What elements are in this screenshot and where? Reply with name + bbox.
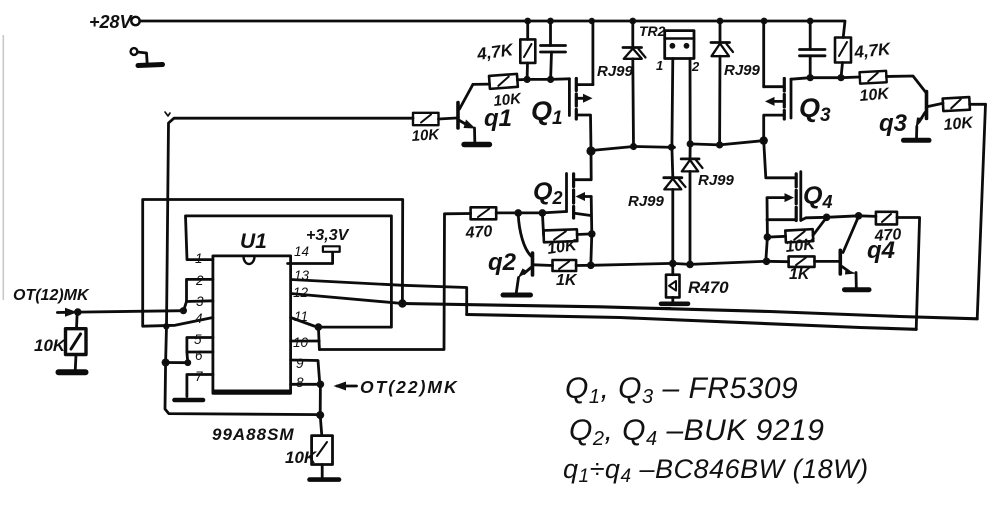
junction bus left end [587,262,595,270]
mosfet Q1 [569,21,593,151]
junction q1wire-pin56wire [162,359,170,367]
wire OT12 to pin3 [78,311,184,312]
wire q1 collector to 10K [473,83,490,86]
transistor q1 [458,84,476,141]
wire pin5-pin6 join [187,338,213,353]
wire Q2 gate row [496,212,566,213]
resistor 470 left [471,207,497,219]
svg-text:5: 5 [194,332,202,347]
junction rail-Q1drain [589,18,595,24]
ground R470 [661,304,688,309]
svg-text:1: 1 [195,251,203,266]
svg-text:11: 11 [294,309,308,324]
resistor 1K q2 [553,260,577,271]
wire bus2 pin13 to 470R [467,315,917,330]
wire Q3 gate row [791,77,860,79]
wire 10K left leg [767,235,785,239]
svg-text:10K: 10K [34,336,67,355]
IC U1 body [213,256,291,393]
svg-text:10K: 10K [943,114,975,134]
svg-text:8: 8 [296,375,304,390]
junction bus right end [763,258,771,266]
svg-text:+3,3V: +3,3V [306,227,350,244]
svg-text:Q1, Q3 – FR5309: Q1, Q3 – FR5309 [565,372,798,408]
ground 10K bottom [310,477,340,482]
junction 4.7K bottom [524,76,531,83]
wire 10K left leg [542,213,543,236]
wire 10K to q1 base [439,118,457,119]
scan edge artifact [3,35,5,300]
svg-text:4,7K: 4,7K [852,39,892,62]
wire pin1 loopB to pin11 [186,216,392,327]
wire 1K to q4 base [815,260,839,263]
diode RJ99 D1 [623,21,646,147]
svg-text:OT(22)MK: OT(22)MK [360,377,459,397]
junction 4.7KR bottom [837,74,844,81]
resistor 10K q3 collector [943,97,970,111]
wire bus1 pin12 to q3 collector [402,304,977,319]
wire pin8 down to 10K [320,384,322,435]
resistor 10K q1 base [413,113,439,125]
junction q4 collector / 470R [855,212,863,220]
junction TR2 pin2 [687,140,694,147]
wire 1K left leg [766,260,789,263]
svg-text:2: 2 [195,273,204,288]
junction q2 collector [514,209,522,217]
svg-text:6: 6 [195,348,203,363]
svg-text:2: 2 [691,59,700,74]
ground input pulldown [59,369,86,375]
svg-text:10K: 10K [493,90,523,110]
wire Q4 source to bus [766,237,768,261]
junction rail-Q3drain [761,18,768,25]
resistor R470 shunt [666,263,680,302]
ground q3 emitter [904,138,930,143]
wire Q2 source to bus [591,234,592,265]
junction rail-4.7kL [524,18,531,25]
diode RJ99 D2 [711,21,733,145]
wire q1 base long (from 10K down left side around U1 to pin8 node) [165,118,413,414]
wire pin10-11 vertical [318,327,319,349]
junction D2 anode [716,141,723,148]
wire 10K right leg [577,232,592,235]
junction 10K q2 top [539,209,547,217]
wire 470 to U1 pins10/11 [319,214,470,350]
junction wrap wire [316,411,324,419]
svg-text:RJ99: RJ99 [597,63,634,80]
ground q4 emitter [845,287,870,292]
svg-text:470: 470 [464,223,493,242]
svg-text:13: 13 [294,268,310,283]
wire Q4 gate row [801,216,876,221]
svg-text:U1: U1 [240,230,267,253]
notes [563,372,869,487]
transistor q3 [916,92,944,139]
node Q3 source [760,136,768,144]
wire 10K to q3 base [886,76,926,93]
mosfet Q2 [567,151,592,234]
wire pin8 stub [291,383,321,386]
wire source bus (R470 row) [591,261,768,265]
junction capR bottom [807,74,814,81]
arrow OT(12) input [57,308,77,317]
wire pin4 loopA [143,200,403,327]
resistor 10K q3 base [860,71,887,84]
svg-text:10K: 10K [785,236,817,256]
tick mark [165,112,170,116]
pin numbers right [293,244,310,390]
node +28V terminal circle [131,17,139,25]
wire pin13 run [291,280,467,315]
svg-text:q1÷q4 –BC846BW (18W): q1÷q4 –BC846BW (18W) [563,454,869,487]
junction OT12 node [74,308,82,316]
svg-text:RJ99: RJ99 [724,62,761,79]
junction pin8 [317,381,325,389]
wire pin6 down to q1wire [166,352,188,363]
junction rail-capL [547,18,554,25]
junction 10K q4 top [823,214,831,222]
wire q2 base to 1K [534,263,553,267]
svg-text:+28V: +28V [89,12,134,32]
capacitor left [541,21,566,79]
capacitor right [800,21,826,78]
ground pin7 [175,398,204,403]
wire pin7 to ground [187,375,213,397]
diode RJ99 D4 [664,178,686,264]
svg-text:10K: 10K [285,448,318,467]
svg-text:Q2, Q4 –BUK 9219: Q2, Q4 –BUK 9219 [569,414,824,450]
wire right edge vertical (to bus1) [977,104,985,318]
wire 10K to gate node [517,79,569,80]
svg-text:R470: R470 [688,278,729,297]
wire pin12 run [291,294,403,304]
wire right phase node [690,141,764,145]
junction TR2 pin1 wire [668,144,675,151]
power +3.3V bar [323,246,340,252]
svg-text:TR2: TR2 [639,23,666,39]
resistor 10K input pulldown [66,312,87,369]
wire terminal stub [138,52,148,64]
junction capL bottom [547,76,554,83]
resistor 10K pulldown bottom [312,436,333,477]
wire 470R to bus2 vertical [897,218,920,330]
wire pin2-pin3 join [187,279,213,301]
svg-text:4: 4 [195,311,203,326]
pin numbers left [194,251,204,384]
svg-text:1K: 1K [556,272,578,289]
ground terminal [138,65,163,66]
junction rail-D1 [629,18,636,25]
wire TR2 pin1 [671,59,675,178]
svg-text:1K: 1K [789,266,811,283]
resistor 4.7K right [835,38,851,78]
svg-text:RJ99: RJ99 [698,172,735,189]
unused terminal circle [131,48,138,55]
resistor 470 right [876,212,897,225]
junction pin12 loopA [398,299,406,307]
resistor 4.7K left [520,21,535,79]
node Q1 source / left phase [586,146,595,155]
junction 10K-Q4vert [764,233,772,241]
wire 1K to bus node [576,264,591,267]
transistor q4 [840,216,858,287]
wire TR2 pin2 [689,59,692,159]
transformer TR2 [665,31,694,59]
wire +28V rail [140,21,845,38]
junction pin6 node [184,359,191,366]
svg-text:OT(12)MK: OT(12)MK [13,287,90,304]
wire q3 collector to right edge [970,103,986,106]
svg-text:1: 1 [656,58,663,73]
svg-text:10: 10 [293,335,309,350]
svg-text:99A88SM: 99A88SM [212,425,295,444]
junction pin11 [315,323,323,331]
svg-text:470: 470 [873,226,902,245]
resistor 1K q4 [789,256,815,267]
ground q2 emitter [503,293,531,298]
svg-text:14: 14 [294,244,309,259]
wire pin14 +3.3V [288,252,333,264]
junction q1wire-pin4wire [163,323,169,329]
junction pin3 [180,307,187,314]
svg-text:10K: 10K [859,85,891,105]
junction rail-capR [807,18,814,25]
ground q1 emitter [464,142,490,147]
junction rail-D2 [717,18,724,25]
wire pin9 to pin8 [291,360,320,384]
svg-text:q2: q2 [488,249,517,276]
mosfet Q4 [764,141,801,238]
resistor 10K q4 [785,229,813,242]
svg-text:7: 7 [195,369,203,384]
transistor q2 [516,214,532,293]
svg-text:12: 12 [293,285,309,300]
diode RJ99 D3 [681,159,702,265]
svg-text:10K: 10K [411,126,441,145]
junction 10K-source vert [588,230,596,238]
junction R470 top [669,260,677,268]
junction D1 anode [630,143,637,150]
junction D3 bottom [686,261,694,269]
resistor 10K q1 collector [489,74,518,89]
wire 10K right to gate row [813,217,827,235]
svg-text:9: 9 [296,356,304,371]
wire pin10 stub [291,340,320,343]
svg-text:RJ99: RJ99 [628,193,665,210]
svg-text:q3: q3 [879,110,908,137]
arrow OT(22) input [334,382,357,391]
wire pin3 stub [184,301,213,311]
resistor 10K q2 [543,229,577,242]
wire left phase node [591,147,675,151]
svg-text:3: 3 [196,294,204,309]
mosfet Q3 [764,21,791,141]
